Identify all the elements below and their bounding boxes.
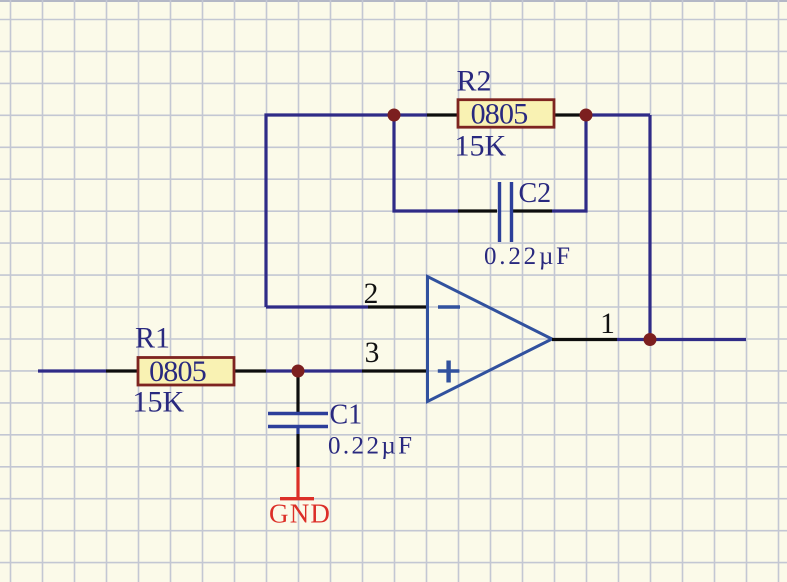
ground [280, 467, 314, 499]
svg-text:C1: C1 [330, 400, 363, 431]
svg-text:0805: 0805 [471, 98, 528, 131]
capacitor C1 [268, 373, 328, 468]
resistor R1 [106, 355, 266, 388]
svg-text:15K: 15K [133, 386, 185, 419]
svg-text:R1: R1 [135, 322, 170, 355]
svg-text:15K: 15K [455, 130, 507, 163]
svg-text:R2: R2 [457, 65, 492, 98]
op-amp U1 [428, 277, 553, 402]
wire node A down to C2 [394, 115, 458, 211]
node D output junction [644, 333, 657, 346]
wire left corner to pin2 [266, 305, 368, 308]
wire R1 to node C [266, 369, 298, 372]
wire top left corner to node A [266, 115, 394, 307]
wire output to right edge [617, 338, 746, 341]
svg-text:1: 1 [600, 308, 615, 340]
node A junction [388, 109, 401, 122]
node B junction [580, 109, 593, 122]
svg-text:0.22µF: 0.22µF [328, 433, 414, 460]
node C junction [292, 365, 305, 378]
svg-text:0805: 0805 [149, 355, 206, 388]
wire node A to R2 pin [394, 113, 427, 116]
resistor R2 [427, 98, 581, 131]
wire node B down to C2 [552, 115, 586, 211]
wire input left [38, 369, 106, 372]
wire node B to right corner [581, 113, 650, 116]
svg-text:0.22µF: 0.22µF [484, 243, 573, 270]
pin 3 wire [362, 369, 426, 372]
wire right vertical feedback [648, 115, 651, 340]
pin 1 wire output [552, 338, 617, 341]
svg-text:3: 3 [365, 337, 380, 369]
wire node C to pin3 [298, 369, 362, 372]
capacitor C2 [458, 182, 552, 242]
svg-text:C2: C2 [519, 178, 552, 209]
svg-text:GND: GND [269, 499, 331, 529]
svg-text:2: 2 [364, 278, 379, 310]
pin 2 wire [368, 305, 426, 308]
